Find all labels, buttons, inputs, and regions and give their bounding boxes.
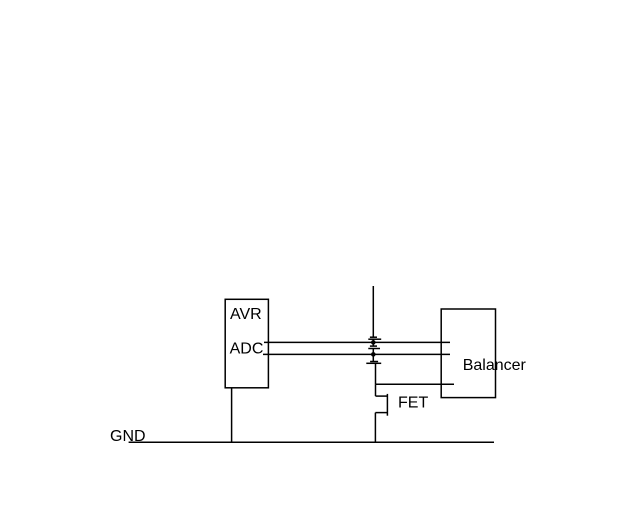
net GND rail bbox=[129, 441, 494, 443]
node junction dot wire2/battery bbox=[371, 352, 376, 357]
svg-text:Balancer: Balancer bbox=[463, 357, 527, 374]
wire AVR to ground bbox=[231, 388, 233, 443]
battery B3 bbox=[366, 362, 381, 364]
wire FET source to ground bbox=[374, 413, 376, 443]
battery B1 bbox=[368, 337, 381, 339]
svg-text:ADC: ADC bbox=[230, 341, 264, 358]
wire battery top lead bbox=[372, 286, 374, 337]
transistor Q1 FET bbox=[375, 384, 387, 416]
svg-text:AVR: AVR bbox=[230, 306, 262, 323]
svg-text:GND: GND bbox=[110, 428, 146, 445]
wire FET drain to Balancer bbox=[376, 383, 455, 385]
box U1 AVR bbox=[225, 299, 268, 388]
node junction dot wire1/battery bbox=[371, 340, 376, 345]
box U2 Balancer bbox=[441, 309, 495, 398]
wire ADC line 1 bbox=[264, 341, 450, 343]
wire B2 to B3 lead bbox=[372, 349, 374, 362]
battery B2 bbox=[368, 346, 380, 348]
svg-text:FET: FET bbox=[398, 395, 428, 412]
wire battery bottom lead bbox=[375, 363, 377, 384]
wire B1 to B2 lead bbox=[372, 339, 374, 346]
wire ADC line 2 bbox=[263, 353, 450, 355]
